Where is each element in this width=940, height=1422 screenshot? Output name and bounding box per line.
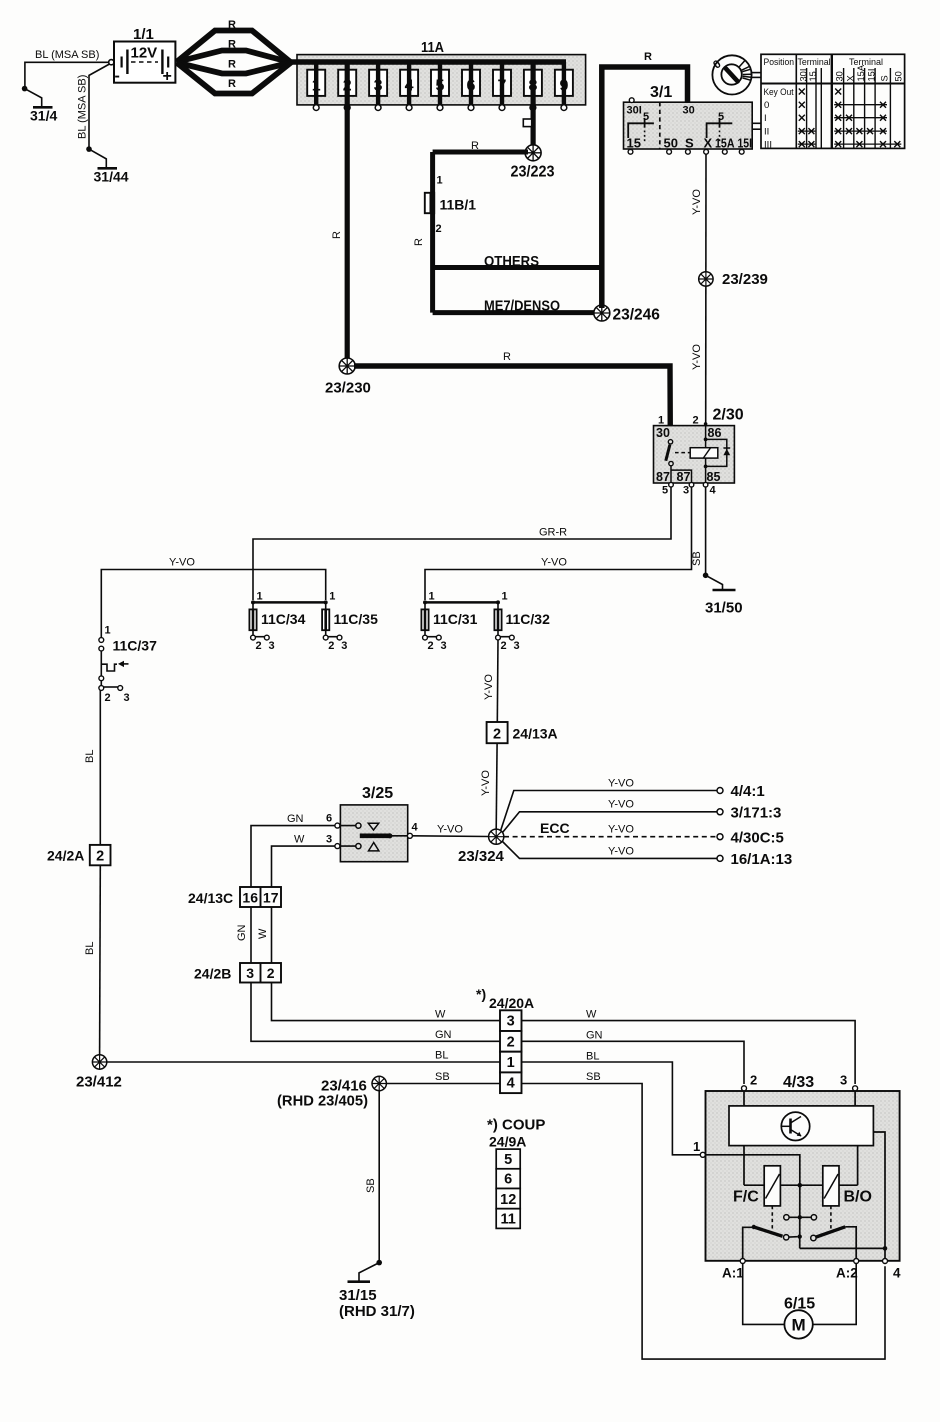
wire SB 24/20A pin4 to 4/33 pin4 [522, 1084, 886, 1360]
svg-text:1: 1 [507, 1055, 515, 1071]
ground 31/4 [25, 89, 58, 124]
junction 23/246 [594, 305, 660, 324]
svg-text:SB: SB [691, 551, 703, 566]
svg-text:BL (MSA SB): BL (MSA SB) [77, 75, 89, 139]
svg-text:11A: 11A [421, 39, 444, 56]
svg-text:3: 3 [840, 1073, 847, 1088]
fuse 11C/35 [322, 609, 378, 652]
svg-text:ME7/DENSO: ME7/DENSO [484, 299, 560, 315]
wire R from fuse 8 down to 23/223 [530, 62, 535, 148]
svg-text:2: 2 [507, 1034, 515, 1050]
svg-text:GN: GN [586, 1030, 603, 1042]
svg-text:87: 87 [656, 470, 670, 484]
svg-text:15I: 15I [738, 137, 753, 151]
svg-text:Y-VO: Y-VO [169, 557, 195, 569]
contact arm right (A:2) [811, 1235, 816, 1240]
switch 3/25 [326, 785, 419, 862]
connector 24/2A [47, 845, 111, 865]
svg-text:2: 2 [693, 415, 699, 427]
svg-text:3: 3 [341, 640, 347, 652]
wire GN 24/2B to 24/20A pin2 [251, 983, 500, 1042]
pin1 feed line [705, 1155, 800, 1185]
svg-text:S: S [685, 136, 694, 151]
svg-text:2: 2 [96, 849, 104, 865]
svg-text:R: R [331, 231, 343, 239]
key position symbol [711, 55, 761, 94]
svg-text:15: 15 [627, 136, 641, 151]
wire R riser to ignition switch [602, 51, 688, 308]
svg-text:Terminal: Terminal [798, 56, 831, 67]
fuse box 11A [291, 39, 586, 105]
svg-text:X: X [704, 136, 713, 151]
wire BL 24/20A pin1 to 4/33 pin1 [522, 1062, 701, 1155]
svg-text:GN: GN [287, 813, 304, 825]
svg-text:16: 16 [242, 890, 258, 906]
3/1 stubs to table [752, 122, 761, 124]
3/1 right contact [707, 118, 733, 142]
svg-text:R: R [471, 140, 479, 152]
svg-text:24/20A: 24/20A [489, 995, 534, 1011]
fuse 11A #4 [400, 62, 418, 111]
wire SB relay pin4 to ground 31/50 [691, 487, 708, 578]
bar 11C/34-11C/35 pin1 [253, 601, 326, 604]
svg-text:50: 50 [664, 136, 678, 151]
junction 23/239 [699, 271, 768, 288]
svg-text:Y-VO: Y-VO [608, 824, 634, 836]
svg-text:Y-VO: Y-VO [691, 344, 703, 370]
wire SB 23/416 to ground 31/15 [365, 1091, 382, 1266]
3/1 terminal circles [628, 149, 744, 154]
ECC fan-out wires [501, 778, 793, 869]
svg-text:1: 1 [693, 1139, 700, 1154]
fuse 11A #2 [338, 62, 356, 111]
svg-text:R: R [228, 39, 236, 51]
wire BL (MSA SB) vertical to ground 31/44 [86, 64, 109, 152]
svg-text:1: 1 [502, 591, 508, 603]
junction 23/416 [277, 1076, 386, 1109]
svg-text:Y-VO: Y-VO [480, 770, 492, 796]
svg-text:3: 3 [374, 78, 383, 95]
svg-text:24/2B: 24/2B [194, 966, 231, 982]
bar 11C/31-11C/32 pin1 [425, 601, 498, 604]
svg-text:3: 3 [507, 1014, 515, 1030]
svg-text:2: 2 [328, 640, 334, 652]
fuse 11C/32 [494, 609, 550, 652]
connector 24/2B [194, 963, 281, 983]
svg-text:SB: SB [435, 1071, 450, 1083]
svg-text:Y-VO: Y-VO [691, 189, 703, 215]
svg-text:R: R [503, 351, 511, 363]
svg-text:3: 3 [124, 692, 130, 704]
svg-text:12: 12 [500, 1192, 516, 1208]
fuse 11A #3 [369, 62, 387, 111]
wire BL (MSA SB) from battery to ground 31/4 [22, 62, 109, 91]
connector 24/13C [188, 887, 281, 907]
svg-text:A:2: A:2 [836, 1266, 858, 1281]
wire R from 23/230 to relay 2/30 pin1 [354, 366, 670, 439]
contact arm left (A:1) [743, 1227, 752, 1258]
svg-text:3/1: 3/1 [650, 84, 672, 101]
svg-text:Y-VO: Y-VO [608, 799, 634, 811]
svg-text:Terminal: Terminal [849, 56, 883, 67]
svg-text:1: 1 [105, 625, 111, 637]
diode [723, 449, 730, 455]
relay 2/30 [654, 407, 744, 497]
wire Y-VO 3/25 pin4 to 23/324 [412, 824, 488, 837]
relay switch contact [668, 440, 672, 444]
svg-text:11C/37: 11C/37 [113, 638, 158, 654]
svg-text:Y-VO: Y-VO [541, 557, 567, 569]
wire Y-VO from 3/1 terminal X to relay 2/30 [691, 154, 706, 423]
wire GN 3/25 pin6 to 24/13C [251, 813, 335, 887]
svg-text:23/223: 23/223 [511, 164, 555, 181]
svg-text:3: 3 [326, 834, 332, 846]
wire Y-VO relay pin3 to 11C/31 [425, 487, 692, 600]
svg-text:R: R [228, 78, 236, 90]
wire W 24/2B to 24/20A pin3 [272, 983, 501, 1021]
wire W 3/25 pin3 to 24/13C [272, 834, 335, 888]
svg-text:24/2A: 24/2A [47, 848, 84, 864]
wire ME7/DENSO branch [433, 310, 597, 315]
svg-text:I: I [764, 113, 767, 124]
svg-text:11C/32: 11C/32 [506, 611, 551, 627]
svg-text:0: 0 [764, 100, 769, 111]
fuse 11A #9 [555, 62, 573, 111]
svg-text:4: 4 [507, 1076, 515, 1092]
svg-text:2: 2 [501, 640, 507, 652]
svg-text:1: 1 [257, 591, 263, 603]
svg-text:3: 3 [514, 640, 520, 652]
svg-text:W: W [257, 928, 269, 939]
svg-text:BL: BL [84, 750, 96, 763]
svg-text:BL: BL [84, 942, 96, 955]
svg-text:4/33: 4/33 [783, 1074, 814, 1091]
svg-text:6: 6 [326, 813, 332, 825]
svg-text:Y-VO: Y-VO [483, 674, 495, 700]
wire W 24/20A pin3 to 4/33 pin3 [522, 1021, 856, 1084]
key position table [761, 54, 905, 150]
svg-text:23/230: 23/230 [325, 380, 371, 397]
svg-text:30I: 30I [798, 69, 808, 82]
junction 23/324 [458, 829, 505, 865]
svg-text:*): *) [476, 986, 486, 1002]
coil common node [780, 1184, 822, 1186]
svg-text:GN: GN [435, 1029, 452, 1041]
svg-text:X: X [845, 75, 855, 81]
fuse 11A #7 [493, 62, 511, 111]
blower control unit 4/33 [693, 1073, 901, 1281]
svg-text:31/15: 31/15 [339, 1287, 377, 1304]
svg-text:GR-R: GR-R [539, 527, 567, 539]
svg-text:11C/35: 11C/35 [334, 611, 379, 627]
svg-text:12V: 12V [131, 45, 158, 62]
svg-text:15A: 15A [856, 64, 866, 81]
connector note 24/9A (COUP) [487, 1117, 545, 1229]
svg-text:11C/34: 11C/34 [261, 611, 306, 627]
circuit breaker 11C/37 [99, 625, 157, 705]
wire R braid battery to fuse box (4 conductors) [177, 31, 292, 94]
ground 31/44 [89, 149, 129, 184]
wire GR-R relay pin5 to 11C/34 [253, 487, 671, 600]
svg-text:15I: 15I [866, 69, 876, 82]
4/33 transistor module [729, 1106, 873, 1146]
fuse 11C/34 [249, 609, 305, 652]
svg-text:31/44: 31/44 [94, 169, 129, 185]
svg-text:5: 5 [436, 78, 445, 95]
ground 31/50 [705, 575, 743, 616]
wire R 23/223 to 11B/1 branch [433, 150, 528, 155]
svg-text:4/30C:5: 4/30C:5 [731, 830, 784, 847]
svg-text:50: 50 [894, 71, 904, 81]
svg-text:9: 9 [559, 78, 568, 95]
connector 24/13A [483, 640, 558, 743]
svg-text:R: R [228, 19, 236, 31]
4/33 bottom pins [740, 1259, 745, 1264]
svg-text:2: 2 [493, 727, 501, 743]
svg-text:2: 2 [267, 965, 275, 981]
svg-text:16/1A:13: 16/1A:13 [731, 851, 793, 868]
svg-text:*) COUP: *) COUP [487, 1117, 545, 1134]
junction 23/223 [511, 145, 555, 181]
svg-text:86: 86 [708, 426, 722, 440]
svg-text:85: 85 [707, 470, 721, 484]
wire Y-VO to 11C/37 and 11C/35 [101, 557, 325, 638]
svg-text:SB: SB [365, 1178, 377, 1193]
svg-text:1/1: 1/1 [133, 26, 154, 43]
4/33 internal wiring to relay coils [743, 1146, 745, 1186]
connector mark on fuse 8 wire [523, 119, 531, 127]
common output to pin4 [800, 1247, 885, 1249]
svg-text:4/4:1: 4/4:1 [731, 783, 765, 800]
svg-text:23/324: 23/324 [458, 848, 505, 865]
svg-text:5: 5 [504, 1152, 512, 1168]
fuse 11A #8 [524, 62, 542, 111]
dashed actuator links [771, 1206, 773, 1232]
svg-text:3: 3 [246, 965, 254, 981]
neutral contact pair [786, 1216, 814, 1218]
svg-text:5: 5 [718, 111, 724, 123]
svg-text:W: W [435, 1009, 446, 1021]
svg-text:3/25: 3/25 [362, 785, 393, 802]
svg-text:Y-VO: Y-VO [608, 846, 634, 858]
svg-text:24/13A: 24/13A [513, 726, 558, 742]
svg-text:(RHD 23/405): (RHD 23/405) [277, 1093, 368, 1110]
svg-text:3: 3 [269, 640, 275, 652]
junction 23/230 [325, 358, 371, 397]
ignition switch 3/1 [624, 84, 762, 154]
svg-text:24/13C: 24/13C [188, 890, 233, 906]
svg-text:M: M [792, 1316, 806, 1335]
wire R from fuse 2 down to 23/230 [345, 62, 350, 362]
fuse 11A #1 [307, 62, 325, 111]
svg-text:B/O: B/O [844, 1189, 872, 1206]
relay coil B/O [823, 1166, 839, 1206]
wire GN 24/13C to 24/2B [236, 907, 251, 963]
svg-text:-: - [115, 68, 120, 85]
svg-text:+: + [163, 68, 172, 85]
svg-text:W: W [294, 834, 305, 846]
svg-text:GN: GN [236, 924, 248, 941]
svg-text:(RHD 31/7): (RHD 31/7) [339, 1303, 415, 1320]
svg-text:11B/1: 11B/1 [440, 197, 477, 213]
wire Y-VO 24/13A to 23/324 [480, 743, 497, 829]
svg-text:2: 2 [428, 640, 434, 652]
svg-text:BL: BL [435, 1050, 448, 1062]
svg-text:R: R [413, 238, 425, 246]
svg-text:7: 7 [498, 78, 507, 95]
wire BL 11C/37 pin2 to 24/2A [84, 690, 100, 845]
wire GN 24/20A pin2 to 4/33 pin2 [522, 1041, 745, 1084]
wire BL 24/2A to 23/412 [84, 865, 100, 1055]
svg-text:Position: Position [764, 56, 795, 67]
svg-text:11C/31: 11C/31 [433, 611, 478, 627]
svg-text:BL: BL [586, 1051, 599, 1063]
svg-text:30: 30 [656, 426, 670, 440]
svg-text:A:1: A:1 [722, 1266, 744, 1281]
relay coil wiring + diode branch [705, 424, 707, 448]
fuse 11C/31 [421, 609, 477, 652]
svg-text:SB: SB [586, 1071, 601, 1083]
relay coil F/C [764, 1166, 780, 1206]
svg-text:III: III [764, 140, 772, 151]
svg-text:2: 2 [105, 692, 111, 704]
svg-text:2: 2 [256, 640, 262, 652]
svg-text:S: S [879, 75, 889, 81]
wire SB 23/416 to 24/20A pin4 [386, 1071, 500, 1084]
svg-text:4: 4 [405, 78, 414, 95]
svg-text:ECC: ECC [540, 820, 570, 836]
svg-text:31/50: 31/50 [705, 600, 743, 617]
svg-text:1: 1 [312, 78, 321, 95]
relay coil [690, 448, 718, 458]
svg-text:1: 1 [658, 415, 664, 427]
connector 24/20A [476, 986, 534, 1093]
fuse 11A #6 [462, 62, 480, 111]
svg-text:1: 1 [437, 175, 443, 187]
svg-text:30I: 30I [627, 105, 642, 117]
svg-text:W: W [586, 1009, 597, 1021]
svg-text:Y-VO: Y-VO [437, 824, 463, 836]
ground 31/15 [339, 1263, 415, 1320]
svg-text:23/239: 23/239 [722, 271, 768, 288]
svg-text:24/9A: 24/9A [489, 1134, 526, 1150]
svg-text:Y-VO: Y-VO [608, 778, 634, 790]
svg-text:31/4: 31/4 [30, 108, 57, 124]
svg-text:15A: 15A [715, 137, 735, 151]
blower motor 6/15 [743, 1264, 857, 1339]
svg-text:2: 2 [436, 223, 442, 235]
transistor symbol [781, 1112, 809, 1140]
3/1 left contact [628, 118, 654, 142]
svg-text:R: R [228, 59, 236, 71]
svg-text:4: 4 [893, 1266, 901, 1281]
svg-text:3: 3 [441, 640, 447, 652]
svg-text:OTHERS: OTHERS [484, 254, 539, 270]
svg-text:23/412: 23/412 [76, 1074, 122, 1091]
svg-text:30: 30 [683, 105, 695, 117]
svg-text:3: 3 [683, 485, 689, 497]
svg-text:R: R [644, 51, 652, 63]
junction 23/412 [76, 1055, 122, 1091]
svg-text:4: 4 [412, 822, 419, 834]
svg-text:F/C: F/C [733, 1189, 759, 1206]
svg-text:15: 15 [808, 71, 818, 81]
svg-text:30: 30 [835, 71, 845, 81]
wire BL 23/412 to 24/20A pin1 [107, 1050, 500, 1063]
svg-text:II: II [764, 127, 769, 138]
battery 1/1 [109, 26, 176, 85]
svg-text:87: 87 [677, 470, 691, 484]
svg-text:6: 6 [467, 78, 476, 95]
svg-text:23/246: 23/246 [613, 307, 661, 324]
svg-text:2: 2 [750, 1073, 757, 1088]
wire vertical through 11B/1 [430, 152, 435, 313]
relay mech link dashed [675, 452, 690, 454]
fuse 11A #5 [431, 62, 449, 111]
svg-text:4: 4 [710, 485, 717, 497]
svg-text:1: 1 [329, 591, 335, 603]
svg-text:2/30: 2/30 [713, 407, 744, 424]
svg-text:Key Out: Key Out [764, 86, 794, 97]
svg-text:5: 5 [662, 485, 668, 497]
center contact column [799, 1185, 801, 1248]
svg-text:17: 17 [263, 890, 279, 906]
wire OTHERS branch [433, 265, 602, 270]
svg-text:BL (MSA SB): BL (MSA SB) [35, 49, 99, 61]
svg-text:1: 1 [429, 591, 435, 603]
svg-text:6/15: 6/15 [784, 1296, 815, 1313]
svg-text:11: 11 [501, 1212, 516, 1228]
svg-text:5: 5 [643, 111, 649, 123]
svg-text:3/171:3: 3/171:3 [731, 805, 782, 822]
fuse 11B/1 [413, 175, 476, 247]
wire W 24/13C to 24/2B [257, 907, 272, 963]
svg-text:6: 6 [504, 1172, 512, 1188]
